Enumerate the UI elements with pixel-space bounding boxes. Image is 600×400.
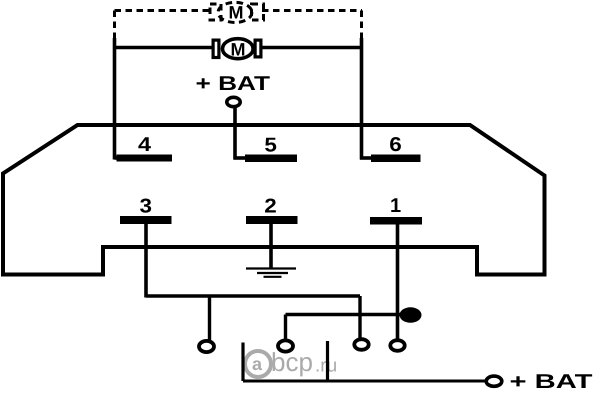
wire: bus L2 horizontal to junction <box>286 313 409 316</box>
svg-text:3: 3 <box>140 196 153 218</box>
wire: dashed box left side <box>113 11 116 41</box>
wire: +BAT circle to terminal 5 <box>233 107 237 160</box>
svg-text:+ BAT: + BAT <box>510 371 593 393</box>
wire: dashed box top line left <box>115 9 211 12</box>
wire elbow 5 <box>234 156 247 160</box>
svg-text:1: 1 <box>390 195 401 217</box>
wire: L1 stub down to circle A <box>208 296 211 340</box>
terminal circle +BAT bottom <box>486 376 502 386</box>
wire: motor line left <box>115 46 212 49</box>
wire: terminal 3 down <box>144 224 148 298</box>
motor M (solid) <box>223 39 254 59</box>
wire elbow 6 <box>360 156 372 160</box>
motor brush right <box>255 40 261 57</box>
wire: L2 left end down to circle B <box>284 315 287 340</box>
svg-text:4: 4 <box>138 134 152 156</box>
terminal circle +BAT top <box>227 97 240 106</box>
junction dot <box>400 307 422 322</box>
watermark abcp.ru text <box>252 347 337 377</box>
terminal bar 2 <box>246 216 298 224</box>
wire: bottom bracket left vertical <box>241 343 244 382</box>
terminal bar 5 <box>245 155 297 163</box>
terminal circle C <box>354 339 368 350</box>
terminal circle A <box>199 341 214 352</box>
wire: dashed box right side <box>360 11 363 41</box>
wire: right vertical (to terminal 6) <box>360 38 364 160</box>
wire: terminal 2 to ground <box>269 224 273 268</box>
svg-text:bcp: bcp <box>271 347 313 377</box>
ground symbol <box>246 269 296 277</box>
svg-text:a: a <box>252 354 263 374</box>
wire: motor line right <box>263 46 362 49</box>
wire: L1 right end down to circle C <box>358 296 361 338</box>
wire elbow 4 <box>115 156 119 160</box>
terminal bar 3 <box>120 216 172 224</box>
wire: dashed box top line right <box>262 9 362 12</box>
terminal circle B <box>278 340 293 351</box>
connector housing outline <box>3 125 545 275</box>
wire: bottom bracket right vertical <box>326 341 329 381</box>
svg-text:M: M <box>229 3 244 23</box>
terminal bar 1 <box>370 217 422 225</box>
motor brush left <box>213 40 219 57</box>
dashed motor M (ghost) top <box>210 2 264 22</box>
wire: bus L1 horizontal <box>146 294 360 297</box>
svg-text:2: 2 <box>264 196 277 218</box>
terminal circle D <box>390 340 404 351</box>
terminal bar 6 <box>371 155 421 163</box>
wire: left vertical (to terminal 4) <box>113 38 117 160</box>
watermark abcp.ru logo circle <box>245 351 271 377</box>
svg-text:+ BAT: + BAT <box>196 73 271 95</box>
terminal bar 4 <box>117 155 173 162</box>
wire: bottom horizontal to +BAT <box>243 380 485 383</box>
svg-text:6: 6 <box>389 134 402 156</box>
svg-text:5: 5 <box>264 135 277 157</box>
svg-text:M: M <box>231 40 246 60</box>
wire: terminal 1 down to circle <box>396 225 400 340</box>
